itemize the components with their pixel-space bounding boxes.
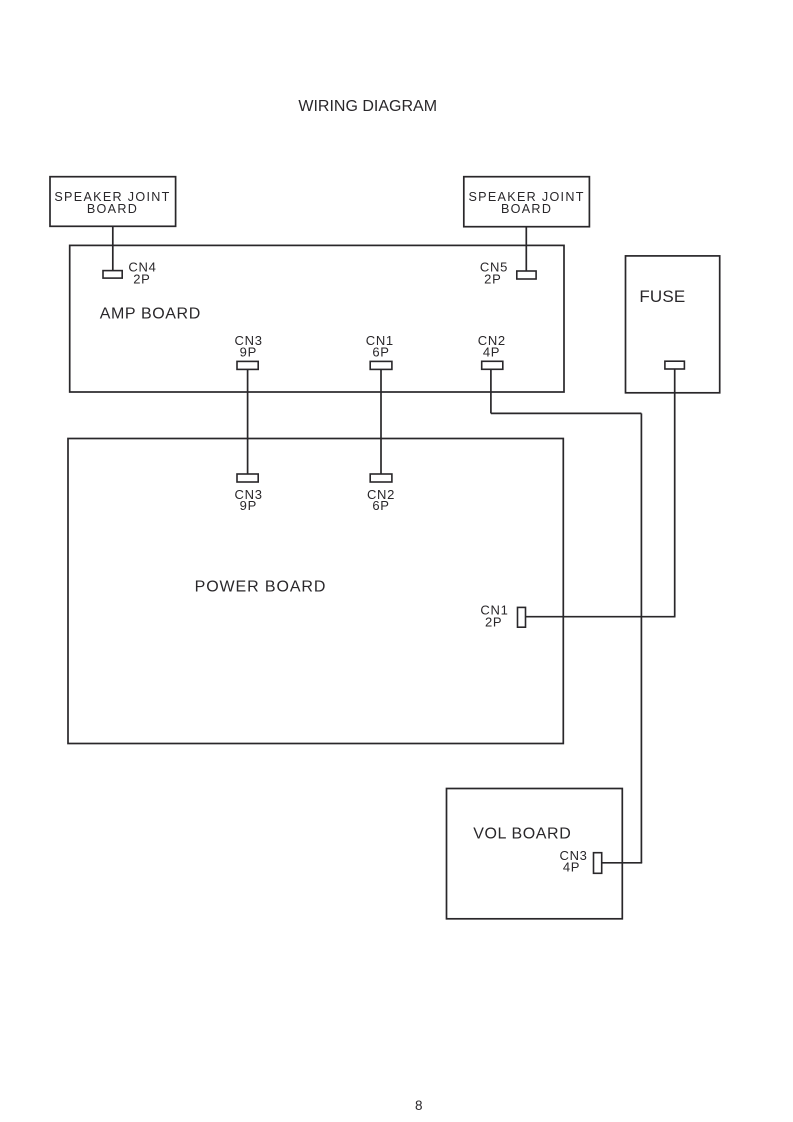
connector (fuse) — [665, 361, 685, 369]
svg-text:WIRING DIAGRAM: WIRING DIAGRAM — [298, 98, 437, 115]
svg-text:2P: 2P — [485, 614, 502, 629]
svg-text:9P: 9P — [240, 345, 257, 360]
svg-text:8: 8 — [415, 1098, 423, 1113]
connector CN3 4P (vol board) — [559, 848, 601, 875]
svg-text:POWER BOARD: POWER BOARD — [195, 578, 327, 595]
connector CN4 2P (amp board) — [103, 260, 157, 287]
connector CN1 6P (amp board) — [366, 333, 394, 369]
connector CN3 9P (amp board) — [235, 333, 263, 369]
svg-text:FUSE: FUSE — [639, 287, 685, 306]
wire: vertical riser down to VOL board CN3 — [640, 413, 642, 862]
svg-text:BOARD: BOARD — [87, 202, 138, 216]
speaker joint board (left) — [50, 177, 176, 227]
wire: amp CN3 to power CN3 — [247, 369, 249, 474]
wire: right speaker joint board to CN5 — [525, 227, 527, 271]
svg-text:6P: 6P — [372, 498, 389, 513]
AMP BOARD box — [70, 245, 564, 392]
wire: vol CN3 to riser — [602, 862, 643, 864]
svg-text:4P: 4P — [483, 345, 500, 360]
svg-text:9P: 9P — [240, 498, 257, 513]
connector CN2 4P (amp board) — [478, 333, 506, 369]
FUSE box — [626, 256, 720, 393]
svg-text:6P: 6P — [372, 345, 389, 360]
svg-text:2P: 2P — [133, 272, 150, 287]
svg-text:AMP BOARD: AMP BOARD — [100, 305, 201, 322]
connector CN2 6P (power board) — [367, 474, 395, 513]
speaker joint board (right) — [464, 177, 590, 227]
wire: power CN1 to fuse drop — [526, 616, 676, 618]
svg-text:2P: 2P — [484, 272, 501, 287]
connector CN5 2P (amp board) — [480, 260, 536, 287]
wire: fuse down to power CN1 run — [674, 369, 676, 617]
wire: left speaker joint board to CN4 — [112, 226, 114, 270]
svg-text:4P: 4P — [563, 860, 580, 875]
wire: amp CN2 down — [490, 369, 492, 413]
wire: amp CN1 to power CN2 — [380, 369, 382, 474]
VOL BOARD box — [447, 789, 623, 919]
POWER BOARD box — [68, 439, 563, 744]
connector CN3 9P (power board) — [235, 474, 263, 513]
wire: horizontal run from CN2 to vol-board riser — [491, 412, 642, 414]
svg-text:VOL BOARD: VOL BOARD — [473, 825, 571, 842]
connector CN1 2P (power board) — [480, 603, 525, 630]
svg-text:BOARD: BOARD — [501, 202, 552, 216]
